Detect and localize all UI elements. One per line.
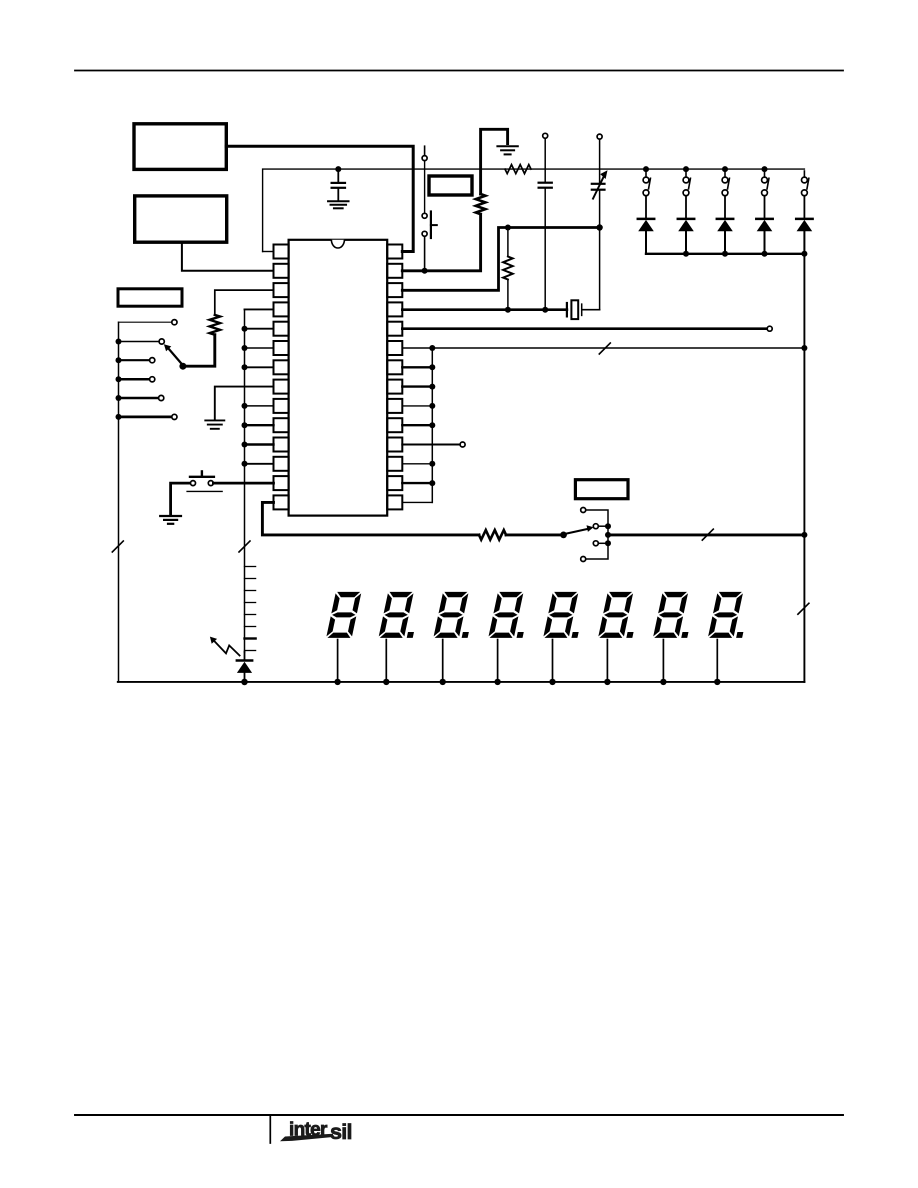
junction dot on inner left rail y=425.2 xyxy=(242,422,248,428)
rotary throw 2 xyxy=(116,339,122,345)
wire: S4 c stub xyxy=(599,542,608,544)
terminal circle S2 b xyxy=(208,481,213,486)
ground (S2) xyxy=(160,515,181,517)
junction dot diode rail x=764.5 xyxy=(762,251,768,257)
wire: S1 top stub xyxy=(424,146,426,155)
pushbutton S1 actuator xyxy=(430,212,432,239)
terminal circle C2 xyxy=(543,133,548,138)
switch SW3 xyxy=(722,166,728,172)
wire: digit 3 common xyxy=(442,640,444,682)
terminal circle pin5R xyxy=(767,326,772,331)
wire: pin5R line xyxy=(402,327,767,330)
display bus tick marks xyxy=(245,567,256,651)
junction dot: selector line at right rail xyxy=(801,532,807,538)
rotary wiper pivot dot xyxy=(179,363,186,370)
wire: left pin stub y=444.5 xyxy=(245,443,274,445)
rotary throw 6 xyxy=(116,414,122,420)
wire: right rail xyxy=(803,254,805,682)
wire: inner left rail (down to LED) xyxy=(244,309,246,652)
pushbutton S2 actuator xyxy=(190,476,214,478)
junction dot: C2 bottom xyxy=(542,307,548,313)
junction dot on inner left rail y=328.7 xyxy=(242,326,248,332)
junction dot: digit 1 at bottom rail xyxy=(334,679,340,685)
wire: pin4R to crystal Y1 xyxy=(402,308,567,311)
display digit 8 (7-segment 8 with dp) xyxy=(708,592,752,638)
switch SW4 xyxy=(762,166,768,172)
bus slash on selector line xyxy=(702,529,713,540)
terminal circle S2 a xyxy=(191,481,196,486)
wire: pin6R line xyxy=(402,347,804,349)
junction dot on inner left rail y=348.0 xyxy=(242,345,248,351)
wire: S1 link xyxy=(424,161,426,213)
junction dot: S1 on pin2R wire xyxy=(422,268,428,274)
wire: S1 bottom stub xyxy=(424,237,426,271)
block box B1 (top left) xyxy=(134,124,226,170)
C3 arrow xyxy=(593,176,604,200)
LED D6 xyxy=(244,652,246,659)
wire: B1 output to pin1R xyxy=(226,146,413,251)
junction dot on inner rail y=425.2 xyxy=(429,422,435,428)
intersil logo xyxy=(280,1120,352,1145)
wire: pin8R stub y=386.6 xyxy=(402,385,432,387)
display digit 7 (7-segment 8 with dp) xyxy=(653,592,697,638)
junction dot: digit 6 at bottom rail xyxy=(604,679,610,685)
LED arrow (squiggle) xyxy=(215,641,240,655)
wire: pin14R stub xyxy=(402,501,432,503)
wire: top thin rail (pin1L riser to diode rail) xyxy=(263,169,805,251)
rotary throw 1 xyxy=(119,321,172,323)
wire: B2 output to pin2L xyxy=(182,242,274,271)
wire: pin9R stub y=405.9 xyxy=(402,405,432,407)
wire: R5 to wiper xyxy=(183,335,215,367)
wire: S4 a xyxy=(586,510,608,559)
rotary switch S3 left rail xyxy=(118,322,120,682)
rotary throw 4 xyxy=(116,376,122,382)
terminal circle C3 xyxy=(597,134,602,139)
junction dot: R4 top xyxy=(505,225,511,231)
wire: left pin stub y=348.0 xyxy=(245,347,274,349)
display digit 3 (7-segment 8 with dp) xyxy=(433,592,477,638)
junction dot S4 common xyxy=(605,532,611,538)
block box B2 (left) xyxy=(135,196,227,242)
junction dot on inner left rail y=405.9 xyxy=(242,403,248,409)
wire: R2 top to ground xyxy=(481,129,508,194)
resistor R2 xyxy=(476,194,486,214)
crystal Y1 xyxy=(566,303,568,316)
junction dot: pin6R at inner rail xyxy=(429,345,435,351)
wire: digit 1 common xyxy=(337,640,339,682)
terminal circle S1 c xyxy=(422,231,427,236)
wire: C3 to crystal xyxy=(599,228,601,310)
terminal circle S1 b xyxy=(422,213,427,218)
junction dot on inner left rail y=463.8 xyxy=(242,461,248,467)
wire: diode bottom rail xyxy=(646,253,804,255)
bus slash on left rail xyxy=(112,541,123,552)
junction dot on inner left rail y=367.3 xyxy=(242,364,248,370)
wire: digit 2 common xyxy=(385,640,387,682)
wire: selector line to right rail xyxy=(608,533,804,536)
label box B4 xyxy=(118,289,182,306)
top rule xyxy=(75,70,843,72)
diode D2 xyxy=(678,218,694,221)
junction dot diode rail x=725.0 xyxy=(722,251,728,257)
wire: left pin stub y=367.3 xyxy=(245,366,274,368)
diode D5 xyxy=(796,218,812,221)
wire: pin12R stub y=463.8 xyxy=(402,463,432,465)
wire: pin3R riser net xyxy=(402,228,599,291)
junction dot: selector wiper xyxy=(560,532,567,539)
terminal circle S4 d xyxy=(581,557,586,562)
capacitor C2 xyxy=(544,139,546,182)
display digit 5 (7-segment 8 with dp) xyxy=(543,592,587,638)
junction dot diode rail x=686.0 xyxy=(683,251,689,257)
terminal circle S1 a xyxy=(422,156,427,161)
junction dot on inner rail y=463.8 xyxy=(429,461,435,467)
wire: left pin stub y=328.7 xyxy=(245,328,274,330)
rotary throw 5 xyxy=(116,395,122,401)
wire: pin14L to selector line xyxy=(262,502,479,535)
wire: digit 8 common xyxy=(716,640,718,682)
display digit 6 (7-segment 8 with dp) xyxy=(598,592,642,638)
wire: pin1L stub xyxy=(263,251,274,253)
junction dot on inner rail y=483.1 xyxy=(429,480,435,486)
resistor R1 (on top rail) xyxy=(505,165,531,174)
junction dot on inner rail y=405.9 xyxy=(429,403,435,409)
IC U1 notch xyxy=(331,240,344,248)
junction dot S4 c xyxy=(605,540,611,546)
wire: digit 5 common xyxy=(552,640,554,682)
terminal circle pin11R xyxy=(460,442,465,447)
wire: digit 4 common xyxy=(497,640,499,682)
ground (pin8L) xyxy=(205,419,224,421)
terminal circle S4 b xyxy=(593,524,598,529)
wire: S2 left leg to ground xyxy=(171,483,191,514)
bus slash on inner left rail xyxy=(239,541,250,552)
wire: pin7R stub y=367.3 xyxy=(402,366,432,368)
selector wiper arrow xyxy=(565,529,590,534)
wire: S4 b stub xyxy=(599,525,608,527)
junction dot on inner rail y=386.6 xyxy=(429,384,435,390)
IC U1 right pin boxes (pins 15-28) xyxy=(387,245,402,510)
junction dot: digit 3 at bottom rail xyxy=(440,679,446,685)
wire: left pin stub y=425.2 xyxy=(245,424,274,426)
wire: S2 to pin13L xyxy=(213,482,273,485)
resistor R5 xyxy=(210,315,220,335)
junction dot: digit 7 at bottom rail xyxy=(660,679,666,685)
resistor R3 xyxy=(479,530,506,540)
ground (C1) xyxy=(328,200,349,202)
diode D1 xyxy=(638,218,654,221)
wire: left pin stub y=463.8 xyxy=(245,463,274,465)
resistor R4 xyxy=(507,228,509,257)
diode D4 xyxy=(756,218,772,221)
ground (top, R2) xyxy=(497,145,517,147)
junction dot: digit 8 at bottom rail xyxy=(714,679,720,685)
wire: left pin stub y=405.9 xyxy=(245,405,274,407)
junction dot: R4 bottom xyxy=(505,307,511,313)
wire: digit 7 common xyxy=(662,640,664,682)
variable capacitor C3 xyxy=(599,139,601,182)
wire: pin11R stub with terminal xyxy=(402,444,460,446)
diode D3 xyxy=(717,218,733,221)
terminal circle S4 a xyxy=(581,508,586,513)
junction dot diode rail at right rail xyxy=(801,251,807,257)
junction dot S4 b xyxy=(605,523,611,529)
bus slash on pin6R line xyxy=(599,343,610,354)
wire: digit 6 common xyxy=(606,640,608,682)
svg-text:sil: sil xyxy=(330,1120,352,1144)
junction dot on inner rail y=367.3 xyxy=(429,364,435,370)
rotary throw 3 xyxy=(116,357,122,363)
footer divider tick xyxy=(269,1115,271,1143)
junction dot: pin6R at right rail xyxy=(801,345,807,351)
wire: R3 to selector wiper xyxy=(506,533,564,536)
wire: pin10R stub y=425.2 xyxy=(402,424,432,426)
capacitor C1 (decoupling) xyxy=(337,169,339,181)
label box B5 xyxy=(575,480,628,499)
junction dot: digit 4 at bottom rail xyxy=(494,679,500,685)
pushbutton S2 base bar xyxy=(187,490,222,492)
wire: pin2R to R2 riser xyxy=(402,214,480,271)
bus slash on right rail xyxy=(798,603,809,614)
switch SW5 xyxy=(803,171,805,177)
footer rule xyxy=(75,1114,843,1116)
switch SW2 xyxy=(683,166,689,172)
junction dot: digit 2 at bottom rail xyxy=(383,679,389,685)
wire: pin8L to ground xyxy=(215,387,274,419)
wire: pin12R stub y=483.1 xyxy=(402,482,432,484)
display digit 1 (7-segment 8) xyxy=(326,592,361,638)
junction dot: LED at bottom rail xyxy=(241,679,248,686)
junction dot: C3 bottom xyxy=(596,224,602,230)
display digit 2 (7-segment 8 with dp) xyxy=(378,592,422,638)
IC U1 left pin boxes (pins 1-14) xyxy=(274,245,289,510)
op-amp/IC U1 body xyxy=(289,240,388,516)
wire: inner right rail xyxy=(431,348,433,502)
wire: pin3L to R5 xyxy=(215,290,274,315)
junction dot: decoupling cap tap xyxy=(335,166,341,172)
wire: pin4L to inner left rail xyxy=(245,308,274,310)
rotary wiper arm + arrowhead xyxy=(168,348,183,365)
terminal circle S4 c xyxy=(593,541,598,546)
junction dot on inner left rail y=444.5 xyxy=(242,442,248,448)
wire: bottom rail xyxy=(118,681,805,683)
junction dot: digit 5 at bottom rail xyxy=(549,679,555,685)
display digit 4 (7-segment 8 with dp) xyxy=(488,592,532,638)
label box B3 xyxy=(429,176,472,195)
switch SW1 xyxy=(643,166,649,172)
